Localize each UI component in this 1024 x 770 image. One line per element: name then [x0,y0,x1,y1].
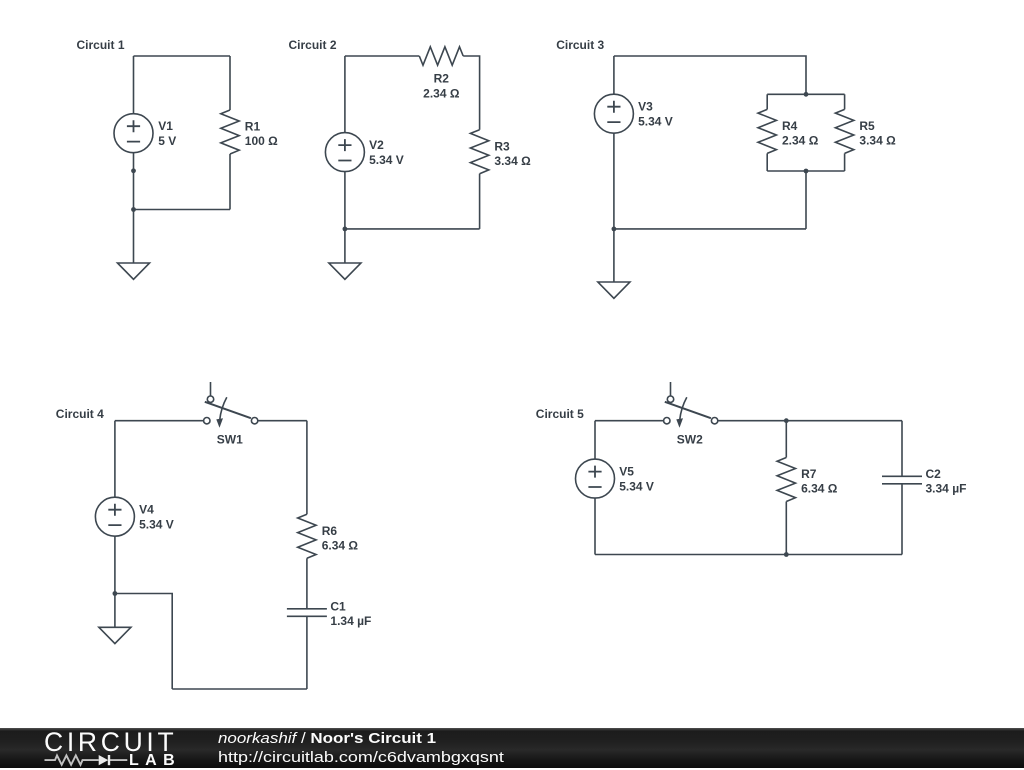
wire C3 left [613,56,615,94]
capacitor C1 [287,600,371,628]
svg-text:Circuit 2: Circuit 2 [289,38,337,52]
node junction below V1 [131,168,136,173]
wire C3 top [614,56,806,94]
capacitor C2 [882,467,966,495]
wire C2cap upper lead [901,421,903,477]
wire C1 top [134,55,231,57]
svg-text:100 Ω: 100 Ω [245,134,278,148]
logo resistor-diode symbol [44,753,129,767]
svg-text:5.34 V: 5.34 V [619,479,654,493]
svg-text:5.34 V: 5.34 V [369,153,404,167]
svg-text:V2: V2 [369,138,384,152]
wire C1 right lower lead [229,154,231,210]
wire R6 to C1cap [306,558,308,609]
svg-text:R5: R5 [859,119,875,133]
resistor R7 [777,458,838,502]
svg-text:3.34 Ω: 3.34 Ω [859,134,896,148]
svg-text:3.34 Ω: 3.34 Ω [494,154,531,168]
wire C3 right down [805,171,807,229]
svg-text:Circuit 5: Circuit 5 [536,407,584,421]
resistor R2 [419,47,463,101]
node junction C5 top [784,418,789,423]
wire C5 top-left [595,420,664,422]
ground G1 [118,263,150,279]
svg-text:5.34 V: 5.34 V [139,517,174,531]
resistor R5 [835,109,896,153]
switch SW1 [204,382,258,447]
wire C5 left [594,421,596,459]
svg-text:C2: C2 [926,467,942,481]
svg-text:R4: R4 [782,119,798,133]
svg-text:2.34 Ω: 2.34 Ω [423,87,460,101]
svg-text:V1: V1 [158,119,173,133]
node junction C3 ground [612,227,617,232]
svg-text:V4: V4 [139,503,154,517]
wire parallel bracket bottom [767,170,844,172]
footer author / title [218,731,436,747]
resistor R3 [470,130,531,174]
wire R7 lower lead [785,502,787,555]
voltage source V1 [114,114,176,153]
svg-text:Circuit 1: Circuit 1 [77,38,125,52]
footer bar [0,728,1024,768]
resistor R6 [298,514,359,558]
node junction C3 bottom [804,169,809,174]
svg-text:R7: R7 [801,467,817,481]
wire C2cap lower lead [901,484,903,555]
wire parallel bracket top [767,93,844,95]
svg-text:V3: V3 [638,100,653,114]
voltage source V4 [95,497,173,536]
ground G3 [598,282,630,298]
svg-text:5 V: 5 V [158,134,176,148]
wire C1 bottom [134,209,231,211]
wire C5 bottom [595,554,902,556]
node junction C5 bottom [784,552,789,557]
ground G2 [329,263,361,279]
wire C4 right upper [306,421,308,515]
svg-text:Circuit 3: Circuit 3 [556,38,604,52]
wire C1 left [133,56,135,114]
svg-text:2.34 Ω: 2.34 Ω [782,134,819,148]
wire R5 lower lead [844,153,846,171]
svg-text:3.34 µF: 3.34 µF [926,482,967,496]
voltage source V5 [576,459,654,498]
node junction C1 bottom-left [131,207,136,212]
voltage source V2 [325,133,403,172]
svg-text:6.34 Ω: 6.34 Ω [801,482,838,496]
svg-text:R1: R1 [245,120,261,134]
wire R2 to corner [463,56,479,130]
wire C2 bottom [345,228,480,230]
wire V2 bottom to ground stem [344,172,346,263]
node junction C2 ground [343,227,348,232]
ground G4 [99,627,131,643]
resistor R1 [221,110,278,154]
wire C4 bottom [172,688,307,690]
svg-text:SW1: SW1 [217,433,243,447]
wire C4 left [114,421,116,498]
CircuitLab logo wordmark CIRCUIT [44,727,177,758]
svg-text:V5: V5 [619,465,634,479]
wire SW2 to C2cap branch [718,420,902,422]
node junction C4 [113,591,118,596]
svg-text:Circuit 4: Circuit 4 [56,407,104,421]
svg-text:5.34 V: 5.34 V [638,114,673,128]
wire V3 bottom to ground stem [613,133,615,282]
node junction C3 top [804,92,809,97]
wire C1 right upper lead [229,56,231,110]
svg-text:R6: R6 [322,524,338,538]
wire R5 upper lead [844,94,846,109]
svg-text:SW2: SW2 [677,433,703,447]
resistor R4 [758,109,819,153]
voltage source V3 [594,94,672,133]
wire R4 upper lead [766,94,768,109]
wire R3 lower lead [479,174,481,229]
logo LAB text [129,752,181,770]
wire R4 lower lead [766,153,768,171]
wire SW1 to corner [258,420,307,422]
wire C3 bottom [614,228,806,230]
wire C4 top-left [115,420,204,422]
wire V5 bottom [594,498,596,554]
svg-text:C1: C1 [330,600,346,614]
footer url [218,750,504,766]
wire C2 left [344,56,346,133]
svg-text:R2: R2 [434,72,450,86]
wire C2 top-left to R2 [345,55,419,57]
svg-text:R3: R3 [494,139,510,153]
wire V4 bottom to ground stem [114,536,116,627]
wire node to riser [115,594,172,690]
svg-text:1.34 µF: 1.34 µF [330,614,371,628]
wire V1 bottom to ground stem [133,153,135,263]
switch SW2 [664,382,718,447]
wire R7 upper lead [785,421,787,458]
svg-text:6.34 Ω: 6.34 Ω [322,538,359,552]
wire C1cap lower lead [306,616,308,689]
